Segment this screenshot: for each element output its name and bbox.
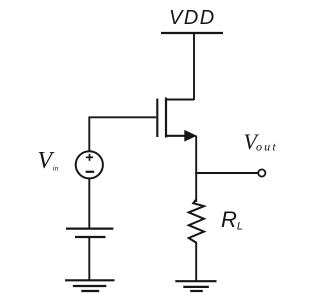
wire source vertical (output node) <box>195 136 197 202</box>
channel bar <box>165 98 167 138</box>
wire input vertical <box>88 117 90 152</box>
output terminal (open circle) <box>258 169 265 176</box>
VDD supply rail <box>161 32 223 34</box>
wire drain vertical <box>193 33 195 100</box>
wire source to battery <box>88 178 90 228</box>
transistor Q1 (NMOS) <box>157 98 197 142</box>
wire output horizontal <box>195 172 257 174</box>
wire gate horizontal <box>89 116 156 118</box>
battery (DC bias) <box>66 229 113 237</box>
source lead with arrow <box>166 135 186 137</box>
wire drain horizontal <box>166 99 194 101</box>
svg-text:Vout: Vout <box>244 129 278 154</box>
wire battery to ground <box>88 237 90 280</box>
svg-text:RL: RL <box>221 207 243 233</box>
resistor RL <box>189 200 204 243</box>
ground (right) <box>175 281 216 291</box>
svg-text:VDD: VDD <box>169 7 216 29</box>
wire resistor to ground <box>195 242 197 281</box>
gate bar <box>156 99 158 138</box>
svg-text:Vin: Vin <box>38 148 59 174</box>
ground (left) <box>65 280 115 291</box>
voltage source Vin <box>76 151 103 178</box>
